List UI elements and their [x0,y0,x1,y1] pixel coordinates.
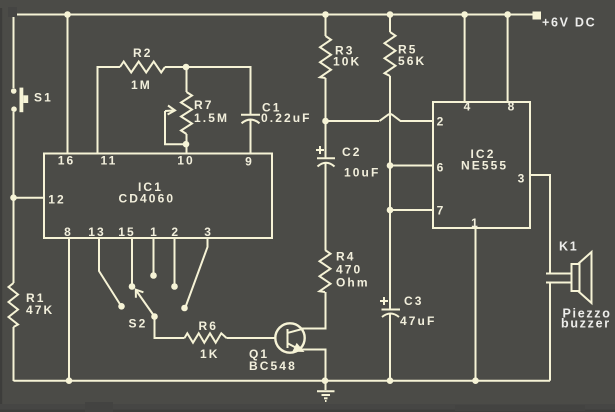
scan artifact bottom dark band [0,404,615,412]
wire pin 2 to S2 contact [174,238,176,285]
svg-text:8: 8 [64,225,73,239]
resistor R1 [9,283,19,327]
svg-text:2: 2 [171,225,180,239]
svg-text:8: 8 [508,100,517,114]
svg-text:16: 16 [58,154,76,168]
scan artifact left black strip [0,8,2,412]
svg-text:47uF: 47uF [400,314,436,328]
S2 contact dot pin3 [181,305,188,312]
wiper arrow of R7 [165,110,173,113]
svg-text:13: 13 [88,225,106,239]
buzzer terminal stubs [546,273,571,275]
junction dot top rail pin4 [461,11,468,18]
svg-text:K1: K1 [559,240,578,254]
junction dot top rail pin8 [504,11,511,18]
wire R7 bottom to pin 10 [186,134,188,154]
svg-text:12: 12 [48,193,66,207]
wire R5 top [389,15,391,33]
svg-text:+6V DC: +6V DC [542,16,596,30]
junction dot pin 12 [10,194,17,201]
svg-text:C2: C2 [342,145,362,159]
S2 contact dot pin2 [171,283,178,290]
junction dot top rail R3 [322,11,329,18]
wire Q1 emitter to ground rail [299,350,326,381]
svg-text:C3: C3 [404,294,424,308]
wire C2 bottom to R4 top [325,163,327,250]
svg-text:R7: R7 [194,98,214,112]
ground symbol [317,381,335,401]
wire pin 6 [390,165,433,167]
IC2 NE555 box [433,102,530,228]
wire left rail middle [13,112,15,283]
resistor R4 [320,250,331,292]
wire left rail lower [13,327,15,381]
pin 4 stub [464,15,466,103]
wire top rail [14,15,534,89]
svg-text:3: 3 [518,172,527,186]
junction dot node B [322,118,329,125]
resistor R7 (rheostat) [181,92,192,134]
resistor R5 [385,32,396,76]
svg-text:R6: R6 [199,319,219,333]
svg-text:47K: 47K [26,303,54,317]
capacitor C1 [241,115,260,154]
svg-text:1: 1 [471,216,480,230]
wire R3 top [325,15,327,37]
svg-text:7: 7 [437,204,446,218]
capacitor C3 [382,310,401,381]
junction dot ground rail pin8 IC1 [66,377,73,384]
wire node B to pin 2 with hop [326,120,380,122]
pin 1 stub to ground rail [475,228,477,381]
svg-text:2: 2 [437,115,446,129]
svg-text:10: 10 [177,154,195,168]
svg-text:R2: R2 [133,46,153,60]
junction dot R7 bottom [183,141,190,148]
svg-text:NE555: NE555 [461,158,508,172]
wire pin 3 to buzzer [530,175,550,274]
mask left rail gaps: S1 gap and R1 body handled by drawing rail in segments [10,11,541,384]
wire R5 bottom through pins 6,7 to C3 [389,76,391,310]
svg-text:10uF: 10uF [344,166,380,180]
junction dot ground rail pin1 [472,377,479,384]
pin 8 stub to ground rail [68,238,70,381]
svg-text:3: 3 [204,225,213,239]
svg-text:4: 4 [464,100,473,114]
junction dot top rail pin16 [64,11,71,18]
svg-text:470: 470 [336,263,362,277]
svg-text:BC548: BC548 [249,359,297,373]
svg-text:11: 11 [101,154,118,168]
S2 contact dot pin15 [129,283,136,290]
wire R2 left / pin 11 stub [98,67,121,154]
svg-text:Ohm: Ohm [336,276,370,290]
svg-text:1: 1 [150,225,159,239]
pin 16 stub IC1 [67,15,69,154]
resistor R3 [320,36,331,78]
wire S2 pivot to R6 [155,317,185,339]
plus sign C3 [380,297,388,305]
wire hop to pin 2 [400,120,433,122]
svg-text:1M: 1M [131,78,152,92]
IC1 CD4060 box [44,154,272,239]
wire R7 wiper [165,111,186,144]
wire pin 1 to S2 contact [153,238,155,274]
switch S2 wiper arm [137,291,155,317]
wire R6 to Q1 base [227,337,277,339]
resistor R2 [120,62,165,73]
svg-text:1K: 1K [200,347,220,361]
wire pin 13 to S2 contact [99,238,121,305]
resistor R6 [185,333,227,342]
transistor Q1 [275,323,304,352]
svg-text:buzzer: buzzer [561,317,611,331]
svg-text:R4: R4 [336,250,356,264]
svg-text:9: 9 [245,155,254,169]
wire node A to R7 top [186,67,188,92]
+6V DC terminal square [533,12,542,20]
svg-text:S2: S2 [129,317,148,331]
junction dot top rail R5 [387,11,394,18]
svg-text:56K: 56K [398,54,426,68]
wire bottom rail [14,380,551,382]
pin 8 stub [507,15,509,103]
wire R2 right to node A [165,66,186,68]
svg-text:1.5M: 1.5M [194,111,229,125]
junction dot pin 7 [387,207,394,214]
junction dot ground rail emitter [322,377,329,384]
wire node A to C1 top [186,67,251,115]
wire Q1 collector to R4 [301,292,326,329]
svg-text:6: 6 [437,161,446,175]
plus sign C2 [316,146,324,154]
wire buzzer to ground rail [549,283,551,381]
crossover hop [380,114,401,121]
junction dot pin 6 [387,162,394,169]
junction dot node A [183,64,190,71]
wire pin 3 to S2 contact [186,238,208,307]
svg-text:S1: S1 [34,91,53,105]
S2 contact dot pin13 [118,303,125,310]
wire pin 15 to S2 contact [131,238,133,285]
svg-text:15: 15 [118,225,136,239]
S2 pivot dot [151,313,158,320]
S2 contact dot pin1 [150,272,157,279]
wire pin 12 to left rail [14,197,45,199]
svg-text:10K: 10K [333,55,361,69]
junction dot ground rail C3 [387,377,394,384]
wire R3 bottom to node B [325,78,327,121]
svg-text:CD4060: CD4060 [119,191,176,205]
capacitor C2 [317,121,335,167]
wire pin 7 [390,209,433,211]
piezo buzzer K1 symbol [572,252,592,303]
switch S1 pushbutton [11,88,28,113]
svg-text:0.22uF: 0.22uF [261,111,312,125]
